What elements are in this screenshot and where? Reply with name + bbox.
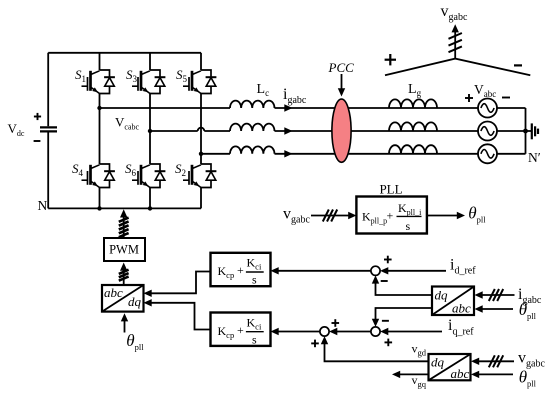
inductor Lc phase c — [230, 146, 274, 153]
svg-text:+: + — [237, 263, 244, 277]
label - at S1 — [381, 280, 388, 282]
svg-text:+: + — [387, 209, 394, 223]
svg-text:Lc: Lc — [257, 82, 270, 98]
transistor S6 — [132, 164, 165, 188]
PI controller box q-axis — [211, 313, 271, 347]
label + of Vdc — [34, 113, 41, 120]
summing junction B (q-axis) — [371, 327, 380, 336]
svg-text:PWM: PWM — [109, 243, 139, 257]
probe arrowhead — [452, 24, 459, 32]
svg-text:S3: S3 — [126, 67, 138, 84]
wire theta_pll input to dq/abc 2 — [471, 371, 513, 378]
wire A to PI q-axis — [271, 328, 320, 335]
svg-text:iq_ref: iq_ref — [448, 317, 474, 337]
PCC ellipse — [332, 99, 351, 162]
svg-text:abc: abc — [451, 366, 470, 381]
svg-text:s: s — [252, 332, 257, 346]
PI controller box d-axis — [211, 253, 271, 287]
label + of probe — [385, 54, 396, 65]
ground symbol — [526, 123, 539, 139]
PWM box — [104, 238, 145, 261]
wire v_gabc input to dq/abc 2 — [471, 358, 514, 365]
svg-text:Lg: Lg — [408, 82, 422, 98]
svg-text:Vdc: Vdc — [8, 121, 25, 138]
wire inverter leg 1 — [99, 53, 101, 209]
label - of Vdc — [34, 140, 41, 142]
svg-text:Kcp: Kcp — [218, 264, 235, 280]
wire inverter leg 2 — [149, 53, 151, 209]
wire PLL output — [427, 212, 465, 219]
transistor S3 — [132, 70, 165, 94]
wire phase A line — [100, 107, 526, 109]
svg-text:Kci: Kci — [247, 315, 262, 331]
wire PI d-axis output to abc/dq — [144, 272, 211, 298]
svg-text:Kpll_p: Kpll_p — [362, 210, 387, 226]
AC source Va — [478, 99, 497, 118]
signal bus arrow (abc/dq to PWM) — [119, 263, 129, 286]
AC source Vb — [478, 122, 497, 141]
svg-text:PLL: PLL — [379, 182, 402, 197]
svg-text:S6: S6 — [125, 161, 137, 178]
transform block dq/abc voltage feedforward — [429, 354, 471, 381]
label - top at B — [382, 320, 389, 322]
probe three-phase slashes — [449, 33, 462, 52]
label - of Vabc — [502, 97, 510, 99]
wire phase B line with hop over leg3 — [150, 128, 526, 131]
wire i_q feedback to B — [372, 308, 432, 327]
wire theta_pll input to dq/abc — [475, 305, 514, 312]
svg-text:N′: N′ — [528, 150, 541, 165]
summing junction S1 (d-axis) — [371, 266, 380, 275]
label + bottom at B — [385, 339, 393, 347]
wire phase C line — [201, 153, 526, 155]
PLL transfer function text — [362, 201, 422, 233]
label + at S1 — [384, 256, 392, 264]
wire B to A — [329, 328, 371, 335]
inductor Lc phase b — [230, 124, 274, 131]
svg-text:vgabc: vgabc — [441, 3, 468, 23]
wire v_gd feedforward to A — [321, 336, 429, 361]
inductor Lc phase a — [230, 101, 274, 108]
capacitor Vdc branch top wire — [47, 53, 49, 127]
wire neutral bus — [525, 108, 527, 154]
label + left-bottom at A — [311, 340, 319, 348]
transistor S5 — [183, 70, 216, 94]
svg-text:Vcabc: Vcabc — [115, 115, 139, 132]
three-phase slashes PLL input — [323, 210, 337, 222]
PLL box — [356, 197, 427, 234]
svg-text:N: N — [38, 198, 48, 213]
svg-text:dq: dq — [435, 288, 449, 303]
svg-text:vgd: vgd — [412, 342, 427, 358]
capacitor Vdc plates — [40, 127, 57, 131]
wire S1 to PI d-axis — [271, 267, 371, 274]
transistor S4 — [82, 164, 115, 188]
wire v_gq output — [392, 371, 429, 378]
current arrow i_gabc phase c — [284, 150, 292, 157]
junction phase C tap — [199, 152, 203, 156]
wire v_gabc to PLL — [311, 212, 356, 219]
svg-text:PCC: PCC — [328, 60, 355, 75]
svg-text:+: + — [237, 323, 244, 337]
inductor Lg phase a — [389, 99, 437, 108]
wire inverter leg 3 — [200, 53, 202, 209]
inductor Lg phase b — [389, 122, 437, 131]
svg-text:dq: dq — [128, 294, 142, 309]
current arrow i_gabc phase a — [284, 104, 292, 111]
capacitor Vdc branch bottom wire — [47, 133, 49, 209]
svg-text:S5: S5 — [176, 67, 188, 84]
junction phase B tap — [148, 129, 152, 133]
svg-text:θpll: θpll — [519, 367, 537, 388]
svg-text:igabc: igabc — [283, 86, 307, 106]
wire i_d feedback to S1 — [372, 275, 432, 295]
transform block dq/abc current feedback — [432, 287, 474, 316]
junction phase A tap — [97, 106, 101, 110]
gate drive bus arrow (PWM to inverter) — [119, 209, 129, 238]
wire i_gabc input to dq/abc — [475, 291, 515, 298]
current arrow i_gabc phase b — [284, 127, 292, 134]
wire PI q-axis output to abc/dq — [144, 299, 211, 329]
probe lines v_gabc measurement — [385, 30, 530, 76]
svg-text:s: s — [252, 273, 257, 287]
wire theta_pll into abc/dq block — [121, 313, 128, 332]
label + of Vabc — [465, 94, 473, 102]
AC source Vc — [478, 144, 497, 163]
svg-text:s: s — [406, 219, 411, 233]
wire DC bottom rail (node N) — [48, 207, 201, 209]
three-phase slashes v_gabc — [489, 355, 503, 367]
summing junction A (q-axis with vgd) — [320, 327, 329, 336]
svg-text:Kcp: Kcp — [218, 324, 235, 340]
PCC pointer arrow — [338, 74, 345, 97]
svg-text:θpll: θpll — [126, 331, 144, 352]
label + top at A — [332, 319, 340, 327]
svg-text:S4: S4 — [72, 161, 84, 178]
svg-text:θpll: θpll — [468, 204, 486, 225]
svg-text:dq: dq — [431, 355, 445, 370]
svg-text:Kpll_i: Kpll_i — [398, 201, 422, 217]
svg-text:S1: S1 — [75, 67, 86, 84]
svg-text:Vabc: Vabc — [474, 82, 496, 99]
wire DC top rail — [48, 52, 201, 54]
svg-text:abc: abc — [452, 301, 471, 316]
svg-text:Kci: Kci — [247, 256, 262, 272]
svg-text:id_ref: id_ref — [450, 257, 476, 277]
svg-text:abc: abc — [104, 285, 123, 300]
three-phase slashes i_gabc — [489, 289, 503, 301]
svg-text:S2: S2 — [175, 161, 186, 178]
inductor Lg phase c — [389, 145, 437, 154]
svg-text:vgabc: vgabc — [283, 205, 310, 225]
junction neutral bus — [523, 129, 528, 134]
transistor S1 — [82, 70, 115, 94]
transistor S2 — [183, 164, 216, 188]
junction leg2 bottom rail — [148, 206, 152, 210]
transform block abc to dq (left) — [102, 285, 144, 312]
wire i_d_ref input — [380, 267, 446, 274]
label - of probe — [514, 64, 522, 66]
wire i_q_ref input — [380, 328, 442, 335]
junction leg1 bottom rail — [97, 206, 101, 210]
